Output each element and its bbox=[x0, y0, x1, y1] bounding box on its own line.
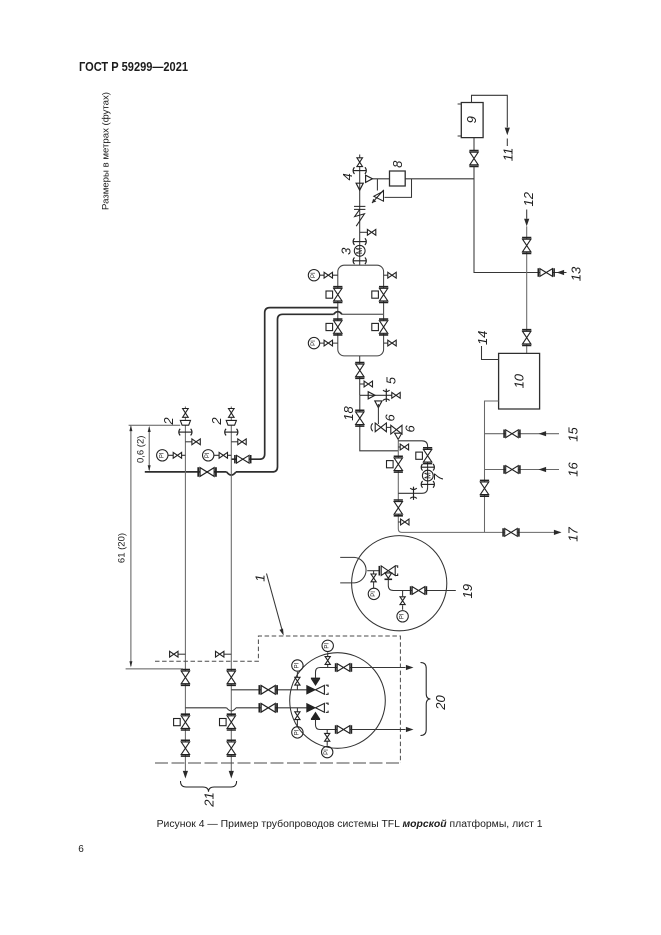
gate valve on upper tree branch bbox=[259, 685, 277, 694]
gate valve under vessel 9 bbox=[469, 151, 478, 167]
coupling below pump 7 bbox=[421, 481, 434, 488]
pipe item 18 leg bbox=[360, 395, 399, 451]
PI instrument top of tree bbox=[322, 640, 333, 651]
pipe down from valve to header and to valve 13 bbox=[474, 167, 567, 273]
PI instrument left upper bbox=[292, 660, 303, 671]
PI instrument left lower bbox=[292, 727, 303, 738]
wellhead adapter well 2 bbox=[226, 420, 236, 425]
supply arrow 12 bbox=[524, 219, 529, 227]
svg-text:8: 8 bbox=[390, 160, 405, 168]
svg-text:15: 15 bbox=[566, 427, 581, 442]
coupling above pump 7 bbox=[421, 464, 434, 471]
main subsea pipe down bbox=[398, 439, 560, 532]
svg-text:10: 10 bbox=[512, 373, 527, 388]
angle valve 6 first bbox=[371, 423, 386, 432]
stub valve left subsea well 1 bbox=[170, 651, 186, 657]
pipe from item 4 tee to box 8 and on to main header bbox=[372, 178, 474, 180]
gate valve on main subsea pipe bbox=[394, 500, 403, 516]
pipe riser of items 4 and 3 bbox=[359, 155, 361, 266]
supply arrow 13 bbox=[557, 270, 565, 275]
small valve at top of item 4 bbox=[357, 158, 363, 167]
coupling on pump 7 return bbox=[410, 487, 417, 500]
gate valve on distribution riser bbox=[480, 480, 489, 496]
gate valve 16 bbox=[504, 465, 520, 473]
gate valve subsea lower well 2 bbox=[227, 740, 236, 756]
svg-text:14: 14 bbox=[475, 331, 490, 345]
svg-text:ГОСТ Р 59299—2021: ГОСТ Р 59299—2021 bbox=[79, 60, 188, 74]
stub valve right on well 1 bbox=[185, 439, 200, 445]
coupling on branch 5 bbox=[383, 389, 390, 402]
svg-text:1: 1 bbox=[252, 574, 267, 581]
vent arrow 11 bbox=[505, 128, 510, 136]
actuated master valve well 1 bbox=[174, 714, 190, 730]
check valve on branch 5 bbox=[368, 392, 375, 399]
actuated valve on pump 7 line bbox=[416, 448, 432, 464]
tap PI left upper bbox=[295, 672, 300, 690]
pipe from vessel 9 top to vent line 11 bbox=[472, 95, 508, 127]
gate valve on line 12 lower bbox=[522, 330, 531, 346]
pipe to test branch 5 bbox=[360, 394, 401, 396]
actuated valve lower left of manifold bbox=[326, 319, 342, 335]
manifold loop block bbox=[338, 265, 384, 356]
export arrow upper bbox=[406, 665, 414, 670]
loop to pump 7 bbox=[398, 441, 427, 494]
tool tee valve bbox=[379, 566, 397, 579]
pipe between valves 6 bbox=[386, 426, 391, 428]
wellhead adapter well 1 bbox=[180, 420, 190, 425]
dimension line 61 (20) bbox=[129, 425, 132, 667]
kill line across manifold interior bbox=[342, 313, 384, 315]
meter circle item 3 bbox=[354, 245, 365, 256]
coupling above meter 3 bbox=[353, 238, 366, 245]
gate valve subsea upper well 1 bbox=[181, 670, 190, 686]
circle 19 outline bbox=[352, 536, 447, 631]
stub valve lower right bbox=[398, 519, 409, 525]
TFL flowline from well 2 right to manifold upper port bbox=[231, 308, 337, 460]
bypass pipe around box 8 bbox=[377, 179, 411, 198]
gate valve 15 bbox=[504, 430, 520, 438]
pipe from vessel 9 bottom bbox=[473, 138, 475, 151]
small valve at top of well 2 bbox=[229, 409, 235, 418]
gate valve on upper outlet bbox=[336, 663, 352, 671]
svg-text:9: 9 bbox=[464, 116, 479, 123]
svg-text:11: 11 bbox=[501, 148, 516, 162]
gate valve subsea upper well 2 bbox=[227, 670, 236, 686]
svg-text:18: 18 bbox=[341, 406, 356, 421]
svg-text:13: 13 bbox=[569, 266, 584, 281]
svg-text:7: 7 bbox=[431, 473, 446, 481]
extension line subsea datum bbox=[126, 668, 183, 670]
gate valve on lower outlet bbox=[336, 725, 352, 733]
pump 7 meter circle bbox=[422, 470, 433, 481]
svg-text:17: 17 bbox=[566, 527, 581, 542]
svg-text:2: 2 bbox=[161, 417, 176, 426]
pipe capsule to tool valve bbox=[367, 570, 379, 572]
flow arrow 17 bbox=[554, 530, 562, 535]
PI instrument bottom left of manifold bbox=[308, 337, 338, 348]
branch pipe 15 bbox=[485, 433, 560, 435]
pipe manifold bottom down bbox=[359, 356, 361, 395]
svg-text:Размеры в метрах (футах): Размеры в метрах (футах) bbox=[101, 92, 112, 210]
svg-text:6: 6 bbox=[383, 414, 398, 422]
svg-text:20: 20 bbox=[433, 695, 448, 711]
svg-text:4: 4 bbox=[340, 173, 355, 180]
small valve at top of well 1 bbox=[183, 409, 189, 418]
pipe down to valve 6 cluster bbox=[377, 404, 379, 424]
actuated valve upper right of manifold bbox=[372, 287, 388, 303]
svg-text:61 (20): 61 (20) bbox=[116, 533, 127, 563]
extension line wellhead datum bbox=[129, 424, 181, 426]
PI instrument top left of manifold bbox=[308, 270, 338, 281]
tree angle valve lower bbox=[307, 703, 328, 719]
crossing hop over well 2 column bbox=[227, 472, 236, 475]
svg-text:16: 16 bbox=[566, 462, 581, 477]
stub valve below tee bbox=[398, 444, 408, 450]
TFL flowline kill line to manifold lower port bbox=[145, 314, 334, 472]
gate valve on flowline at well 2 right bbox=[235, 455, 251, 463]
PI instrument bottom of tree bbox=[322, 746, 333, 757]
downhole arrow well 1 bbox=[183, 771, 188, 779]
well 2 column bbox=[230, 407, 232, 772]
vessel 9 bbox=[458, 103, 484, 138]
brace 21 bbox=[181, 781, 237, 792]
branch from well 2 to tree upper bbox=[231, 689, 306, 691]
actuated valve lower right of manifold bbox=[372, 319, 388, 335]
crossing hop over well 2 bbox=[227, 708, 236, 711]
actuated valve upper left of manifold bbox=[326, 287, 342, 303]
PI instrument on well 1 bbox=[157, 450, 186, 461]
stub valve right on well 2 bbox=[231, 439, 246, 445]
flex joint bbox=[354, 206, 365, 226]
gate valve on line 12 upper bbox=[522, 238, 531, 254]
brace 20 bbox=[421, 663, 431, 736]
leader line label 1 bbox=[267, 574, 284, 636]
mudline dashed bbox=[155, 762, 400, 764]
box 10 bbox=[499, 353, 540, 409]
svg-text:21: 21 bbox=[202, 792, 217, 807]
svg-text:6: 6 bbox=[78, 844, 84, 855]
coupling on well 1 bbox=[179, 429, 192, 436]
pipe 12 down to box 10 bbox=[526, 226, 528, 353]
coupling below top valve bbox=[353, 167, 366, 174]
leader line for label 11 bbox=[506, 139, 508, 147]
regulator valve in bypass bbox=[372, 190, 384, 203]
svg-text:0,6 (2): 0,6 (2) bbox=[135, 436, 146, 463]
svg-text:3: 3 bbox=[339, 247, 354, 255]
dashed boundary of subsea template 1 bbox=[155, 636, 400, 763]
stub valve left subsea well 2 bbox=[216, 651, 232, 657]
downhole arrow well 2 bbox=[229, 771, 234, 779]
pipe tree lower outlet bbox=[316, 719, 406, 729]
tap PI bottom bbox=[325, 730, 330, 746]
tap to PI on capsule line bbox=[371, 571, 376, 588]
coupling on well 2 bbox=[225, 429, 238, 436]
gate valve on kill line bbox=[198, 467, 216, 476]
supply arrow 15 bbox=[539, 431, 547, 436]
svg-text:5: 5 bbox=[383, 376, 398, 384]
dimension line 0,6 (2) bbox=[148, 426, 151, 472]
PI instrument on well 2 bbox=[203, 450, 232, 461]
box 8 bbox=[390, 171, 406, 186]
actuated valve on main subsea pipe bbox=[387, 456, 403, 472]
stub line 14 bbox=[482, 346, 499, 360]
branch pipe 16 bbox=[485, 469, 560, 471]
PI instrument capsule bbox=[368, 588, 379, 599]
circle 20 outline bbox=[290, 653, 386, 749]
stub valve end of branch 5 bbox=[392, 392, 400, 398]
tie line from well 1 to tree lower bbox=[185, 707, 306, 709]
gate valve 19 bbox=[411, 586, 427, 594]
well 1 column bbox=[184, 407, 186, 772]
gate valve 13 bbox=[538, 268, 554, 276]
stub valve bottom right of manifold bbox=[384, 340, 397, 346]
actuated master valve well 2 bbox=[220, 714, 236, 730]
check valve down to items 6 bbox=[375, 401, 382, 408]
supply arrow 16 bbox=[539, 467, 547, 472]
leader line for label 12 bbox=[526, 210, 528, 219]
TFL tool capsule bbox=[340, 557, 366, 583]
tap PI left lower bbox=[295, 708, 300, 726]
gate valve under manifold bbox=[355, 363, 364, 379]
svg-text:2: 2 bbox=[209, 417, 224, 426]
svg-text:19: 19 bbox=[460, 584, 475, 598]
stub valve top right of manifold bbox=[384, 272, 397, 278]
export arrow lower bbox=[406, 727, 414, 732]
gate valve on lower tree branch bbox=[259, 703, 277, 712]
check valve downward item 4 bbox=[356, 183, 363, 190]
pipe from box 10 down distribution bbox=[485, 401, 499, 532]
svg-text:12: 12 bbox=[521, 191, 536, 206]
stub valve right at manifold outlet bbox=[360, 381, 373, 387]
svg-text:Рисунок 4 — Пример трубопровод: Рисунок 4 — Пример трубопроводов системы… bbox=[157, 818, 543, 830]
tap to PI on line 19 bbox=[400, 591, 405, 610]
pipe tree upper outlet bbox=[316, 668, 406, 679]
stub valve right of flex joint bbox=[360, 229, 376, 235]
check valve to box 8 bbox=[366, 175, 373, 182]
angle valve 6 second bbox=[391, 425, 402, 439]
gate valve subsea lower well 1 bbox=[181, 740, 190, 756]
gate valve 17 bbox=[503, 528, 519, 536]
kill line hop over manifold left header bbox=[334, 312, 342, 315]
coupling below meter 3 bbox=[353, 258, 366, 265]
tree angle valve upper bbox=[307, 678, 328, 694]
pipe from tool valve to line 19 bbox=[388, 579, 456, 590]
gate valve 18 bbox=[355, 410, 364, 426]
tap PI top bbox=[325, 652, 330, 667]
PI instrument line 19 bbox=[397, 611, 408, 622]
svg-text:6: 6 bbox=[402, 425, 417, 433]
